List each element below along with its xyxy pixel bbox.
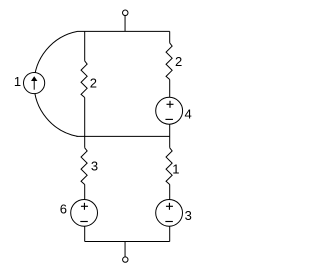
voltage source V3 circle	[156, 199, 183, 226]
wire left column stub above R2	[84, 31, 86, 61]
wire right column stub below V3	[169, 226, 171, 241]
wire left column stub below V6	[84, 226, 86, 241]
svg-text:1: 1	[172, 161, 179, 176]
wire top horizontal	[78, 30, 170, 32]
current source I1 circle	[23, 72, 44, 93]
voltage source V4 plus	[167, 103, 174, 105]
wire bottom terminal stub	[124, 242, 126, 257]
svg-text:1: 1	[14, 74, 21, 89]
wire right column stub above R2b	[169, 31, 171, 43]
svg-text:3: 3	[185, 208, 192, 223]
voltage source V6 plus	[81, 205, 88, 207]
wire left column stub above R3	[84, 136, 86, 147]
wire right column stub below R1	[169, 184, 171, 199]
resistor R2 right zigzag	[166, 43, 172, 80]
svg-text:4: 4	[184, 106, 191, 121]
wire right column stub above R1	[169, 136, 171, 147]
wire left column stub below R3	[84, 184, 86, 199]
svg-text:6: 6	[60, 202, 67, 217]
wire middle horizontal	[77, 135, 170, 137]
wire top terminal stub	[124, 16, 126, 32]
wire left arc through current source	[34, 31, 77, 136]
wire left column stub below R2	[84, 98, 86, 137]
wire bottom horizontal	[85, 241, 170, 243]
wire right column stub below R2b	[169, 80, 171, 98]
voltage source V6 circle	[71, 199, 98, 226]
voltage source V3 minus	[165, 221, 173, 223]
svg-text:3: 3	[91, 158, 98, 173]
svg-text:2: 2	[175, 54, 182, 69]
node top terminal	[123, 10, 129, 16]
resistor R2 left zigzag	[81, 61, 87, 98]
voltage source V3 plus	[166, 205, 173, 207]
svg-text:2: 2	[90, 75, 97, 90]
voltage source V4 minus	[165, 118, 173, 120]
node bottom terminal	[123, 257, 128, 262]
resistor R3 zigzag	[81, 148, 87, 185]
resistor R1 zigzag	[166, 148, 172, 185]
current source I1 arrow	[33, 81, 35, 90]
voltage source V6 minus	[80, 221, 88, 223]
voltage source V4 circle	[156, 97, 183, 124]
wire right column stub below V4	[169, 124, 171, 136]
